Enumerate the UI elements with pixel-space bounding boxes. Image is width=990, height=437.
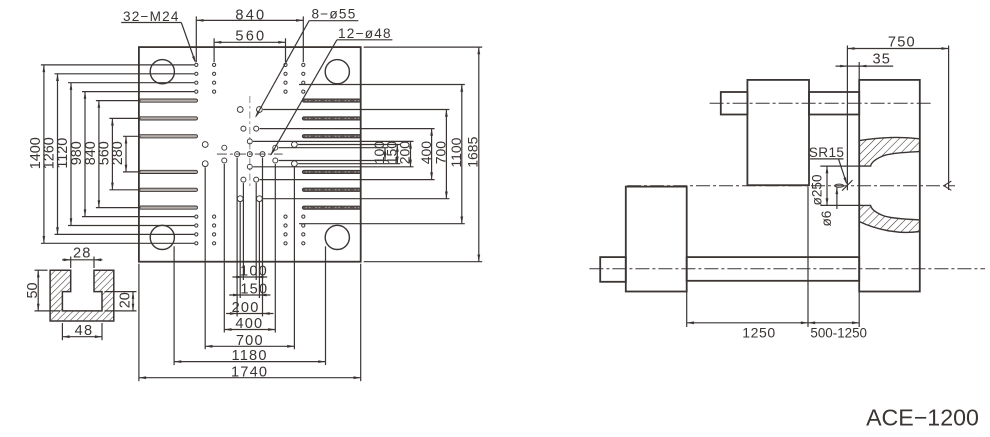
svg-text:1100: 1100 [448, 137, 464, 167]
bottom dimension 1740 [139, 264, 361, 382]
12 o48 holes [222, 126, 278, 182]
bottom dimension 100 [232, 183, 268, 280]
label 8-o55 with leader [255, 7, 358, 118]
svg-text:48: 48 [75, 323, 94, 339]
svg-text:280: 280 [110, 141, 126, 165]
dimension o6 [819, 187, 838, 227]
carriage stub [600, 257, 626, 282]
svg-text:8−ø55: 8−ø55 [312, 7, 357, 22]
svg-text:560: 560 [235, 29, 266, 45]
label SR15 with leader [809, 145, 847, 185]
label 12-o48 with leader [270, 26, 392, 156]
svg-text:500-1250: 500-1250 [810, 326, 867, 341]
svg-text:SR15: SR15 [809, 145, 845, 160]
dimension 1250 and 500-1250 [687, 187, 867, 341]
svg-text:1685: 1685 [465, 136, 481, 167]
right dimension 100 [279, 141, 388, 165]
top dimension 840 [196, 8, 303, 62]
bottom dimension 200 [226, 158, 273, 317]
bottom dimension 700 [205, 167, 294, 349]
svg-text:1740: 1740 [231, 364, 268, 380]
svg-text:ACE−1200: ACE−1200 [866, 405, 979, 431]
8 o55 holes [202, 107, 297, 202]
tie bar hole 2 [325, 60, 349, 84]
barrel [809, 92, 859, 115]
right dimension 200 [253, 141, 413, 167]
svg-text:ø6: ø6 [819, 211, 834, 227]
svg-text:35: 35 [872, 51, 891, 67]
label 32-M24 with leader [121, 9, 196, 63]
centerline arrow [944, 181, 952, 190]
left dimension 560 [97, 118, 141, 189]
tie bar hole 1 [150, 60, 174, 84]
svg-text:50: 50 [25, 282, 41, 298]
lower centerline [589, 268, 985, 270]
barrel centerline [710, 102, 931, 104]
svg-text:32−M24: 32−M24 [123, 9, 180, 24]
right dimension 700 [263, 110, 449, 199]
right dimension 400 [260, 129, 435, 180]
svg-text:1180: 1180 [232, 348, 268, 364]
T-slots right side [302, 99, 360, 209]
dimension o250 [810, 166, 861, 205]
right dimension 150 [298, 141, 400, 165]
svg-text:200: 200 [397, 141, 413, 165]
svg-text:700: 700 [236, 333, 264, 349]
left dimension 1400 [28, 65, 194, 243]
detail dimension 50 [25, 270, 60, 311]
right dimension 1685 [364, 47, 483, 262]
svg-text:20: 20 [117, 292, 133, 308]
nozzle centerline [627, 185, 955, 187]
bottom dimension 150 [229, 202, 270, 298]
svg-text:150: 150 [240, 282, 268, 298]
right dimension 1100 [299, 85, 465, 224]
svg-text:750: 750 [888, 34, 916, 50]
locating ring recess section [859, 138, 920, 233]
left dimension 980 [69, 92, 194, 217]
bottom dimension 1180 [174, 246, 325, 365]
nozzle tip [835, 184, 844, 187]
platen side view [859, 80, 920, 292]
top dimension 560 [214, 29, 285, 62]
platen front view outline [139, 47, 361, 262]
svg-text:840: 840 [235, 8, 266, 24]
left dimension 1120 [55, 83, 194, 226]
bottom dimension 400 [224, 164, 275, 333]
svg-text:400: 400 [235, 316, 263, 332]
injection unit nose stub [721, 92, 748, 115]
T-slots left side [139, 99, 198, 209]
svg-text:700: 700 [433, 141, 449, 165]
svg-text:28: 28 [73, 246, 92, 262]
dimension 750 [847, 34, 948, 190]
svg-text:12−ø48: 12−ø48 [338, 26, 392, 41]
detail dimension 20 [105, 292, 137, 311]
svg-text:ø250: ø250 [810, 174, 825, 205]
svg-text:200: 200 [232, 300, 260, 316]
model name ACE-1200 [866, 405, 979, 431]
detail dimension 28 [62, 246, 103, 268]
svg-text:100: 100 [240, 264, 268, 280]
center locating hole [217, 96, 283, 188]
detail dimension 48 [62, 323, 102, 340]
left dimension 1260 [42, 74, 195, 235]
injection unit rod [687, 257, 860, 281]
32 M24 tapped holes [195, 63, 305, 245]
T-slot cross-section detail [50, 270, 114, 321]
left dimension 840 [83, 101, 140, 208]
nozzle contact plane line [842, 46, 853, 191]
dimension 35 [836, 51, 894, 80]
tie bar hole 4 [325, 225, 349, 249]
tie bar hole 3 [150, 225, 174, 249]
carriage block [626, 187, 687, 292]
svg-text:400: 400 [418, 141, 434, 165]
svg-text:1250: 1250 [742, 325, 776, 341]
injection unit front block [747, 80, 809, 185]
left dimension 280 [110, 136, 140, 172]
